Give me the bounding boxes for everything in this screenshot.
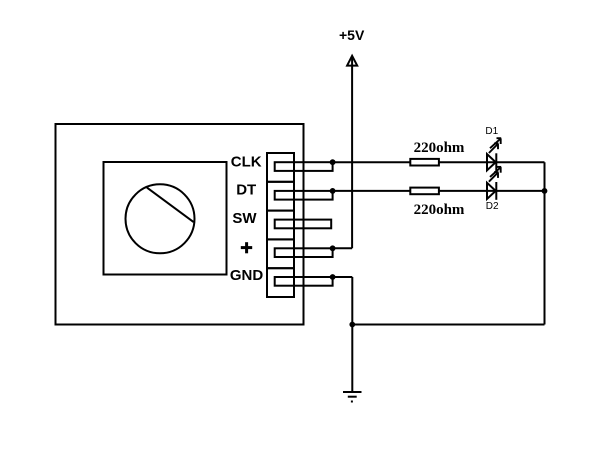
pin CLK	[275, 162, 333, 171]
svg-text:GND: GND	[230, 267, 264, 284]
wire DT to R2	[333, 190, 411, 192]
svg-text:220ohm: 220ohm	[414, 140, 465, 156]
pin DT	[275, 191, 333, 200]
wire GND pin to ground line	[333, 276, 353, 278]
pin header box CLK	[267, 153, 294, 182]
resistor R2	[410, 188, 439, 195]
svg-text:D2: D2	[486, 201, 499, 212]
LED D2 emission arrows	[489, 167, 501, 182]
pin header box GND	[267, 268, 294, 297]
wire CLK to R1	[333, 161, 411, 163]
svg-text:DT: DT	[236, 182, 256, 199]
junction dot plus pin	[330, 245, 336, 251]
svg-text:SW: SW	[232, 210, 257, 227]
svg-text:CLK: CLK	[231, 153, 262, 170]
wire plus pin to +5V	[333, 247, 353, 249]
junction dot D2 bus	[542, 188, 548, 194]
encoder knob plate	[104, 162, 227, 275]
pin GND	[275, 277, 333, 286]
ground	[343, 392, 362, 402]
svg-text:220ohm: 220ohm	[414, 202, 465, 218]
LED D2	[487, 182, 496, 200]
LED D1 emission arrows	[489, 138, 501, 153]
pin header box SW	[267, 211, 294, 240]
wire right bus vertical	[544, 162, 546, 324]
encoder knob circle	[126, 184, 195, 253]
LED D1	[487, 153, 496, 171]
pin header box DT	[267, 182, 294, 211]
label plus	[241, 242, 252, 253]
wire bottom bus horizontal	[352, 324, 544, 326]
wire ground vertical	[351, 277, 353, 392]
wire R1 to D1	[439, 161, 496, 163]
svg-text:+5V: +5V	[339, 27, 365, 43]
pin header box plus	[267, 239, 294, 268]
junction dot bottom bus to ground line	[349, 322, 355, 328]
knob indicator line	[147, 188, 194, 223]
wire D2 to right bus	[496, 190, 544, 192]
svg-text:D1: D1	[485, 126, 498, 137]
junction dot GND pin	[330, 274, 336, 280]
junction dot DT pin	[330, 188, 336, 194]
wire D1 to right bus	[496, 161, 544, 163]
pin SW	[275, 220, 332, 229]
resistor R1	[410, 159, 439, 166]
wire R2 to D2	[439, 190, 496, 192]
rotary encoder module outline	[56, 124, 304, 325]
junction dot CLK pin	[330, 159, 336, 165]
pin plus	[275, 248, 333, 257]
wire +5V vertical	[351, 58, 353, 249]
+5V power arrow	[347, 56, 357, 66]
